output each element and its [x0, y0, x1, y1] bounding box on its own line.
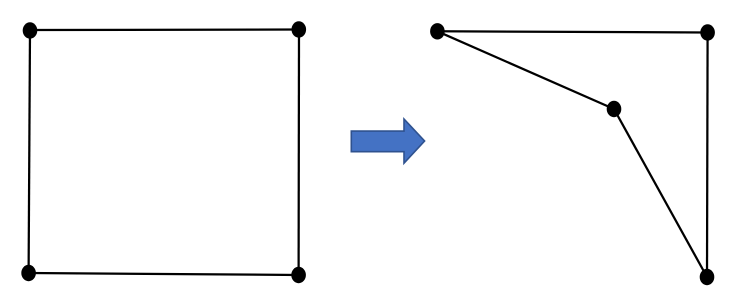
wire quad lower diagonal — [614, 109, 707, 277]
wire quad top edge — [437, 31, 707, 32]
node square bottom-left — [21, 265, 36, 281]
node quad top-left — [430, 23, 445, 39]
node quad middle — [607, 101, 622, 117]
node square bottom-right — [291, 267, 306, 283]
node quad bottom-right — [700, 269, 715, 285]
node square top-left — [23, 22, 38, 38]
wire square left edge — [29, 30, 30, 273]
node quad top-right — [700, 24, 715, 40]
arrow — [351, 119, 424, 163]
wire quad left diagonal — [437, 31, 614, 109]
wire square right edge — [297, 30, 300, 276]
wire quad right edge — [706, 33, 709, 278]
wire square bottom edge — [29, 273, 299, 275]
wire square top edge — [30, 28, 299, 31]
node square top-right — [292, 21, 307, 37]
